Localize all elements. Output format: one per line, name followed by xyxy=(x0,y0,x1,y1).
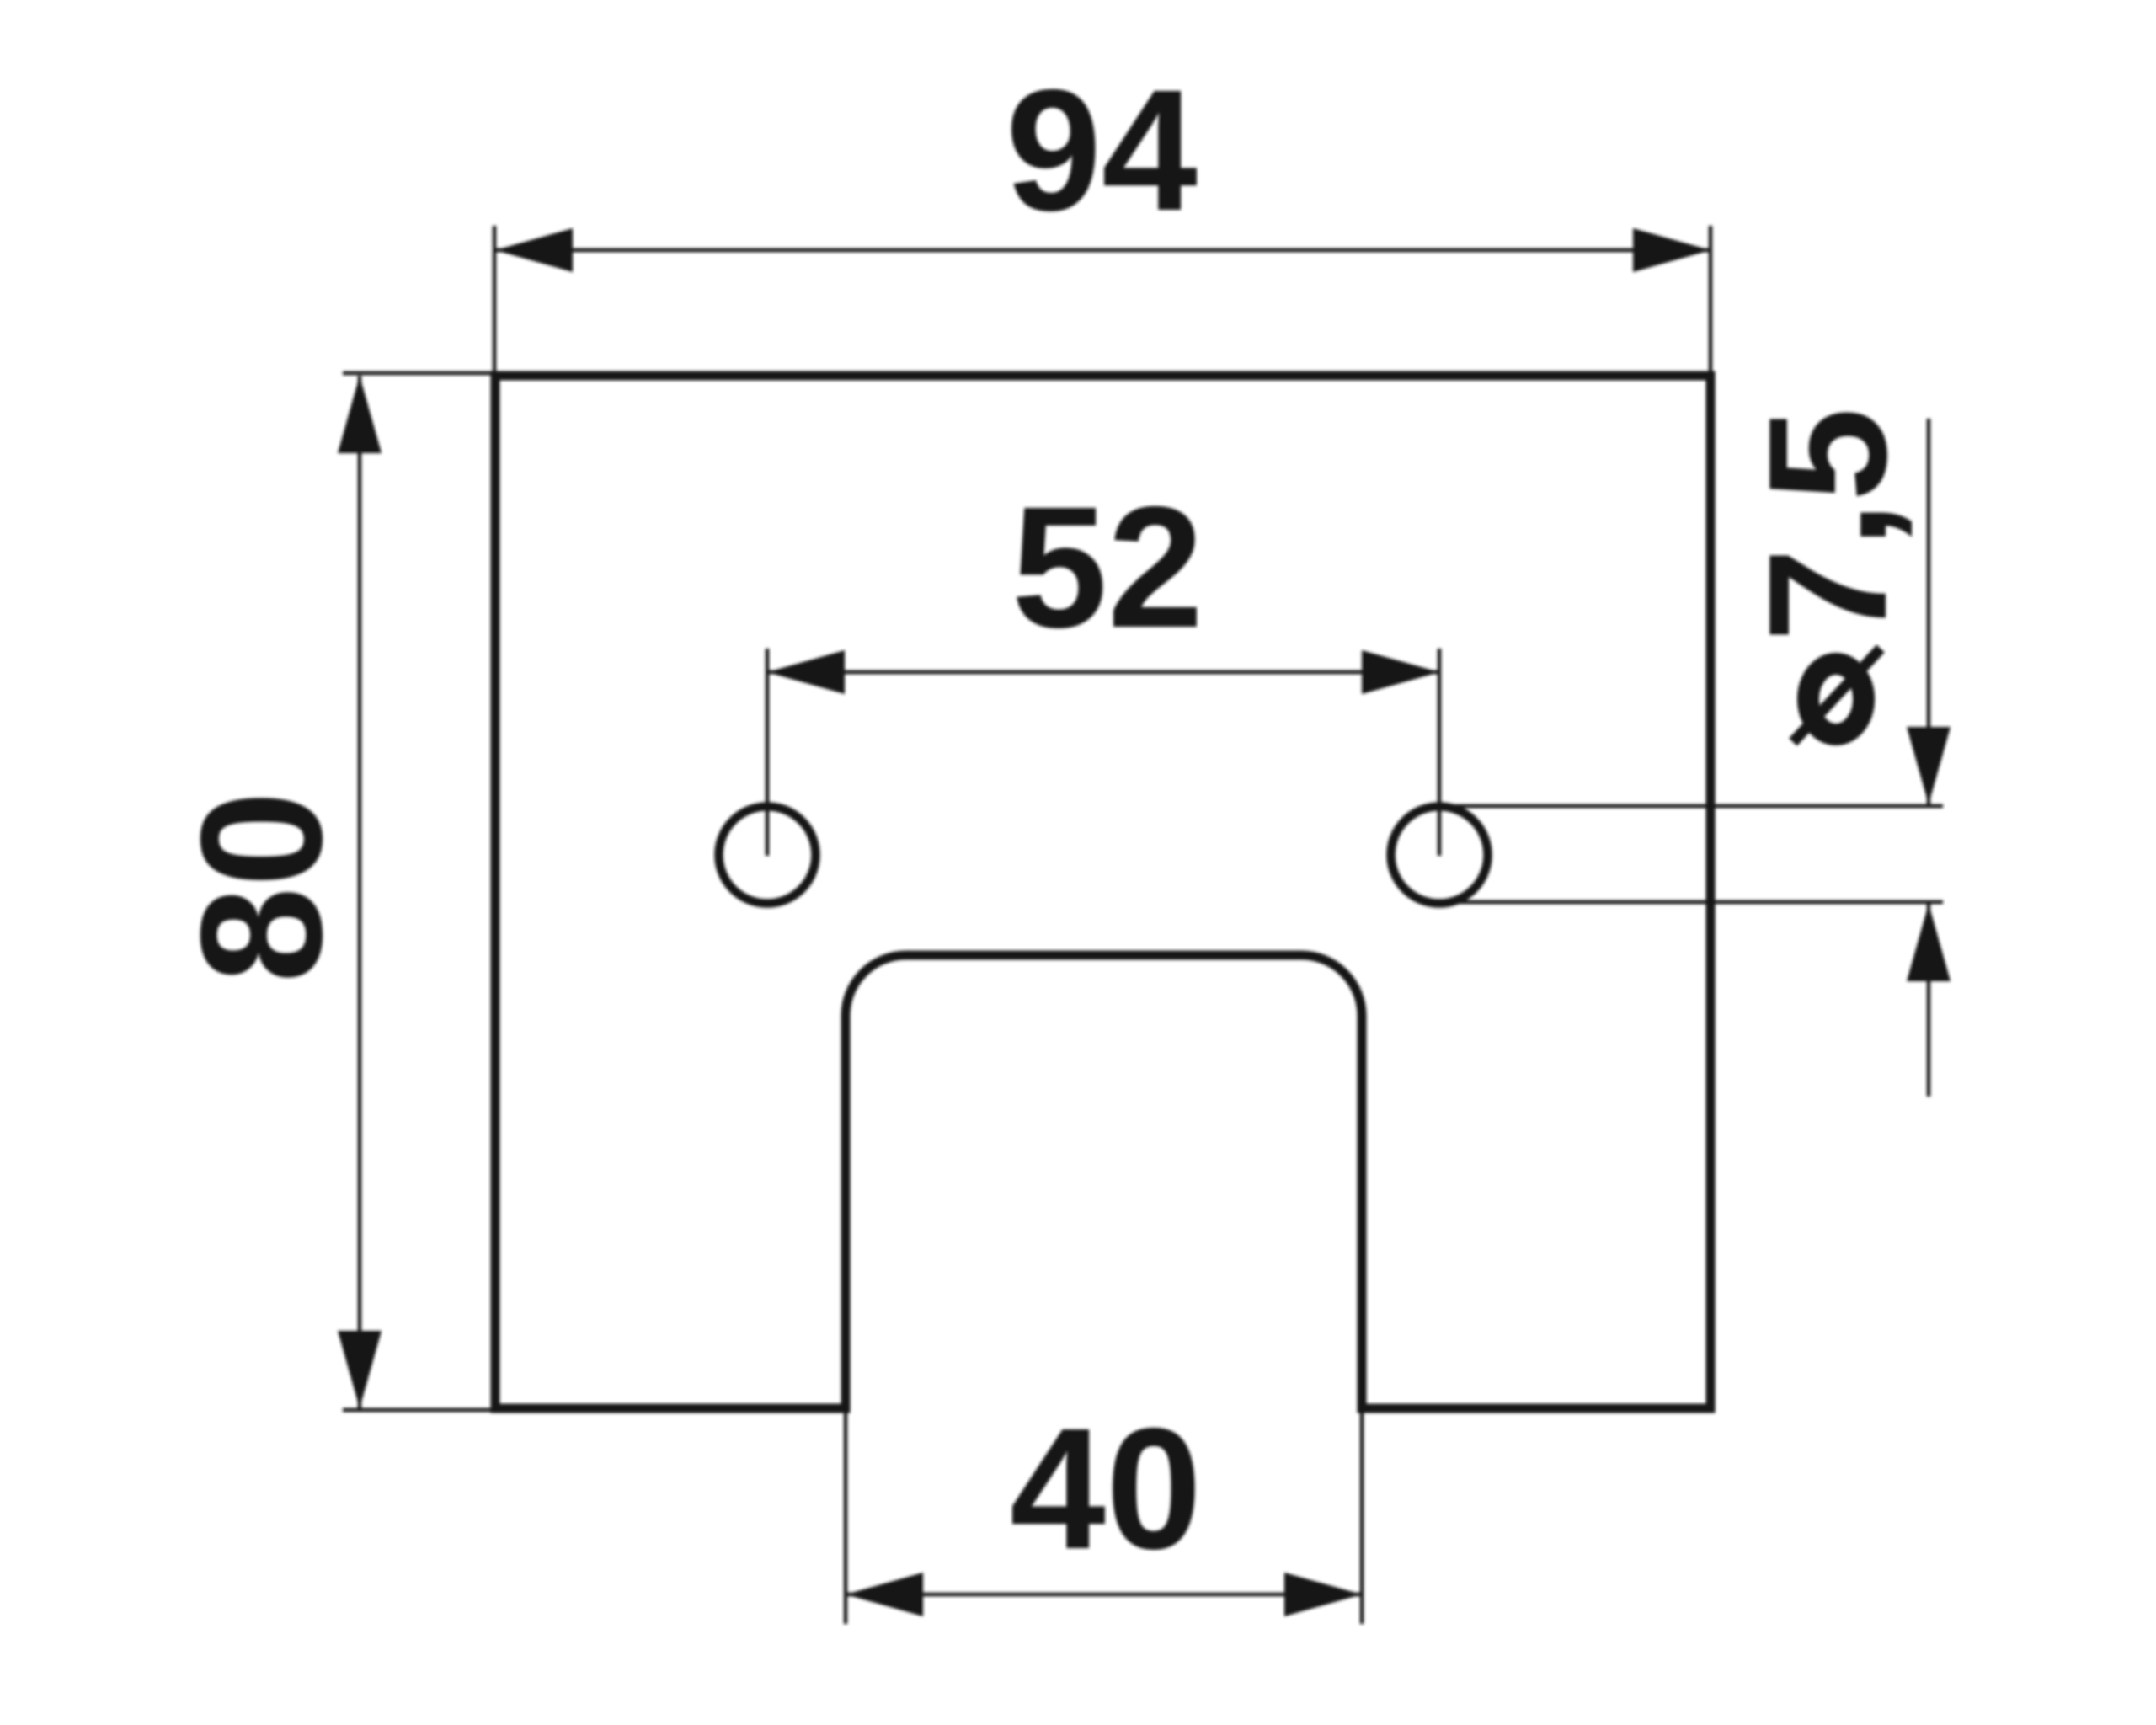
dia 7.5 tangent top xyxy=(1440,804,1943,809)
dim 80 ext bottom xyxy=(343,1408,495,1413)
label dia symbol circle xyxy=(1808,664,1864,734)
dim 52 line xyxy=(767,670,1439,675)
hole left xyxy=(719,807,816,904)
arrow dia bottom (up) xyxy=(1907,904,1951,981)
svg-text:52: 52 xyxy=(1011,471,1203,664)
plate outline with bottom slot xyxy=(495,376,1710,1408)
dim 52 ext left xyxy=(766,649,770,856)
arrow 80 top xyxy=(338,376,382,453)
arrow 94 left xyxy=(495,228,573,272)
arrow dia top (down) xyxy=(1907,727,1951,804)
arrow 40 right xyxy=(1284,1573,1362,1616)
arrow 40 left xyxy=(846,1573,923,1616)
dia 7.5 tangent bottom xyxy=(1442,900,1943,905)
arrow 52 right xyxy=(1362,650,1439,694)
dia 7.5 dim line upper xyxy=(1927,419,1931,806)
svg-text:40: 40 xyxy=(1010,1392,1202,1585)
dim 94 ext right xyxy=(1709,226,1713,376)
arrow 94 right xyxy=(1633,228,1710,272)
dim 80 line xyxy=(358,376,362,1408)
dim 52 ext right xyxy=(1438,649,1442,856)
dim 80 ext top xyxy=(343,371,495,376)
svg-text:94: 94 xyxy=(1006,54,1198,247)
dim 94 line xyxy=(495,248,1710,253)
label dia symbol slash xyxy=(1793,649,1881,742)
dim 40 ext right xyxy=(1360,1412,1364,1624)
dim 40 ext left xyxy=(844,1412,848,1624)
arrow 52 left xyxy=(767,650,845,694)
dia 7.5 dim line lower xyxy=(1927,902,1931,1097)
dim 40 line xyxy=(846,1593,1362,1597)
svg-text:7,5: 7,5 xyxy=(1734,408,1922,642)
svg-text:80: 80 xyxy=(165,791,358,983)
dim 94 ext left xyxy=(493,226,497,376)
arrow 80 bottom xyxy=(338,1331,382,1408)
hole right xyxy=(1391,807,1488,904)
